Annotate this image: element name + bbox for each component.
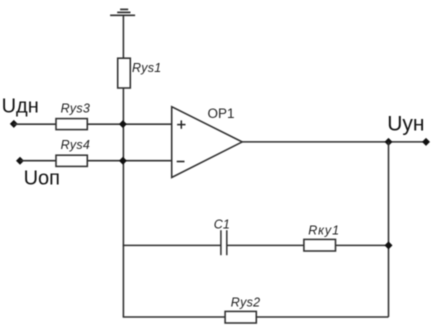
wire Rys3 to op-amp — [87, 123, 171, 125]
svg-text:Rys1: Rys1 — [132, 61, 161, 75]
junction row2 — [119, 157, 127, 165]
svg-text:OP1: OP1 — [208, 106, 235, 121]
resistor Rys3 — [56, 119, 87, 130]
wire Rys4 to op-amp — [87, 160, 171, 162]
junction output — [385, 138, 393, 146]
svg-text:Rys4: Rys4 — [61, 138, 90, 152]
svg-text:Uдн: Uдн — [2, 96, 39, 118]
wire bottom right — [256, 316, 388, 318]
wire Rку1 to right bus — [336, 244, 389, 246]
op-amp minus pin — [177, 161, 185, 163]
wire bottom left — [123, 316, 225, 318]
svg-text:Uоп: Uоп — [24, 167, 60, 189]
wire ground to Rys1 — [122, 15, 124, 58]
wire Uоп to Rys4 — [20, 160, 56, 162]
svg-text:Uун: Uун — [387, 113, 424, 136]
capacitor C1 — [221, 230, 227, 255]
ground — [110, 9, 135, 15]
svg-text:Rys3: Rys3 — [61, 102, 90, 116]
op-amp plus pin — [177, 120, 185, 128]
junction row1 — [119, 120, 127, 128]
svg-text:C1: C1 — [214, 218, 230, 232]
junction feedback right — [385, 241, 393, 249]
node Uоп terminal — [16, 157, 24, 165]
resistor Rys2 — [225, 311, 256, 323]
wire feedback left — [123, 244, 221, 246]
wire Uдн to Rys3 — [14, 123, 57, 125]
resistor Rку1 — [304, 239, 336, 251]
wire left vertical bus — [122, 88, 124, 317]
node Uдн terminal — [10, 120, 18, 128]
resistor Rys1 — [118, 58, 131, 88]
wire op-amp output — [242, 141, 426, 143]
svg-text:Rку1: Rку1 — [308, 223, 340, 237]
wire C1 to Rку1 — [227, 244, 304, 246]
node Uун terminal — [422, 138, 430, 146]
svg-text:Rys2: Rys2 — [231, 296, 260, 310]
resistor Rys4 — [56, 155, 87, 166]
op-amp OP1 — [172, 107, 243, 178]
wire right vertical bus — [388, 142, 390, 317]
